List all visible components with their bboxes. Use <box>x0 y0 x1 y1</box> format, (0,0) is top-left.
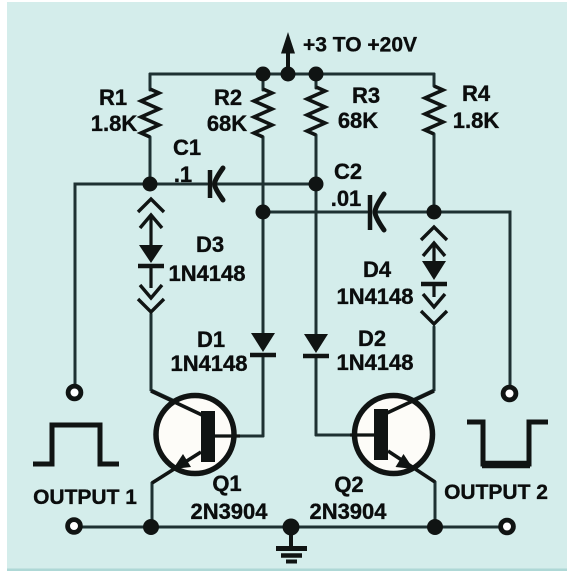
svg-text:+3 TO +20V: +3 TO +20V <box>303 34 417 57</box>
svg-text:Q2: Q2 <box>334 472 363 497</box>
wire: C2 right plate to node D <box>378 211 434 214</box>
terminal: output 2 upper tap <box>503 387 516 400</box>
svg-text:1N4148: 1N4148 <box>336 350 413 375</box>
svg-text:1N4148: 1N4148 <box>170 351 247 376</box>
wire: R2 bottom to node C <box>262 137 265 212</box>
wire: node C to D1 anode <box>262 212 265 333</box>
wire: rail stub to R2 <box>262 74 265 90</box>
svg-text:.01: .01 <box>331 186 362 211</box>
capacitor C2 (.01) <box>331 159 384 230</box>
wire: C1 right plate to node B on R3 branch <box>217 183 316 186</box>
svg-text:R4: R4 <box>462 81 491 106</box>
svg-text:R1: R1 <box>99 85 127 110</box>
wire: rail stub to R1 <box>149 74 152 90</box>
svg-text:2N3904: 2N3904 <box>190 499 268 524</box>
svg-text:1.8K: 1.8K <box>91 111 138 136</box>
transistor Q1 (2N3904) <box>151 391 268 524</box>
wire: Q1 emitter to ground rail <box>152 452 201 527</box>
wire: node A left to output tap <box>75 184 150 384</box>
diode D2 (1N4148) <box>303 326 414 375</box>
node: rail junction at R3 <box>309 67 324 82</box>
node: rail junction at R2 <box>256 67 271 82</box>
transistor Q2 (2N3904) <box>309 391 435 524</box>
wire: rail stub to R4 <box>433 74 436 86</box>
wire: R3 bottom through node B to D2 anode <box>315 135 318 334</box>
terminal: output 1 upper tap <box>68 386 81 399</box>
wire: node C to C2 left plate <box>263 211 367 214</box>
wire: D1 cathode down to Q1 base corner <box>262 356 265 436</box>
wire: bottom ground rail <box>83 526 499 529</box>
node A: R1 / C1 / D3 junction <box>143 177 158 192</box>
terminal: output 1 ground <box>68 520 81 533</box>
svg-text:D3: D3 <box>196 232 224 257</box>
wire: D3 branch lower wire to Q1 collector <box>151 314 205 415</box>
wire: D2 cathode down to Q2 base corner <box>315 356 318 435</box>
node C: R2 / C2 / D1 junction <box>256 205 271 220</box>
svg-text:R3: R3 <box>352 83 380 108</box>
svg-text:C2: C2 <box>334 159 362 184</box>
svg-text:Q1: Q1 <box>212 471 241 496</box>
wire: D4 branch lower wire to Q2 collector <box>385 327 434 413</box>
svg-text:D1: D1 <box>197 327 225 352</box>
node: rail junction at arrow <box>281 67 296 82</box>
resistor R2 (68K) <box>207 85 272 137</box>
svg-text:OUTPUT 1: OUTPUT 1 <box>33 486 137 509</box>
supply arrow <box>281 32 295 74</box>
node: Q1 emitter on ground rail <box>143 519 159 535</box>
svg-text:1.8K: 1.8K <box>453 108 500 133</box>
node: Q2 emitter on ground rail <box>427 519 443 535</box>
wire: rail stub to R3 <box>315 74 318 88</box>
wire: R1 bottom to node A <box>149 137 152 184</box>
svg-text:2N3904: 2N3904 <box>309 499 387 524</box>
capacitor C1 (.1) <box>173 135 223 200</box>
svg-text:.1: .1 <box>174 162 192 187</box>
wire: Q2 base line <box>316 434 375 437</box>
node D: C2 / R4 / D4 junction <box>427 205 442 220</box>
ground symbol <box>276 527 307 562</box>
wire: node D right to output tap 2 <box>434 212 510 385</box>
wire: Q2 emitter to ground rail <box>388 451 435 527</box>
svg-text:D4: D4 <box>363 257 392 282</box>
svg-text:C1: C1 <box>173 135 201 160</box>
resistor R3 (68K) <box>307 83 380 135</box>
wire: Q1 base line <box>215 435 263 438</box>
wire: +V top rail <box>150 73 434 76</box>
node B: C1 / R3 junction <box>309 177 324 192</box>
node: ground stem junction <box>283 519 300 536</box>
resistor R4 (1.8K) <box>425 81 499 134</box>
svg-text:68K: 68K <box>338 108 378 133</box>
diode D4 (1N4148) with break chevrons <box>336 227 447 324</box>
svg-text:1N4148: 1N4148 <box>336 284 413 309</box>
output 1 waveform glyph (positive pulse) <box>33 425 119 464</box>
svg-text:R2: R2 <box>214 85 242 110</box>
terminal: output 2 ground <box>501 520 514 533</box>
output 2 waveform glyph (negative pulse) <box>467 422 548 464</box>
svg-text:1N4148: 1N4148 <box>168 261 245 286</box>
svg-text:D2: D2 <box>358 326 386 351</box>
wire: R4 bottom to node D <box>433 134 436 212</box>
svg-text:OUTPUT 2: OUTPUT 2 <box>444 481 548 504</box>
resistor R1 (1.8K) <box>91 85 159 137</box>
svg-text:68K: 68K <box>207 111 247 136</box>
wire: node A to C1 left plate <box>150 183 207 186</box>
diode D3 (1N4148) with break chevrons <box>138 199 246 312</box>
diode D1 (1N4148) <box>170 327 276 376</box>
